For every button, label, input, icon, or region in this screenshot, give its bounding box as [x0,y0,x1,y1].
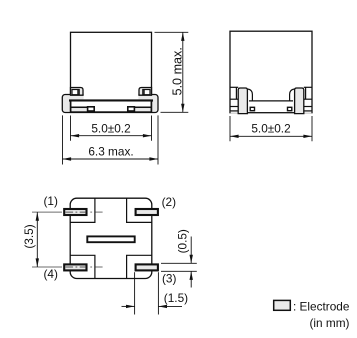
gray bottom band right [135,108,151,111]
svg-text:(1.5): (1.5) [164,291,188,305]
svg-text:5.0 max.: 5.0 max. [170,47,184,95]
extension line pad3 right [157,272,159,314]
extension line pad3 left [134,272,136,314]
svg-text:: Electrode: : Electrode [293,299,350,313]
right column line 1 [304,98,312,100]
right cap boundary line [150,101,152,112]
right tab window [143,90,150,95]
electrode base frame (front view) [62,95,158,113]
left column line 1 [230,98,238,100]
left tab fold line [77,89,79,95]
band top edge left [71,107,88,109]
center slot [87,236,134,242]
left electrode strip (side view) [238,88,247,114]
extension line side left [229,116,231,141]
pad 3 [136,264,158,270]
dimension line (3.5) [36,212,38,267]
right bottom notch (side) [288,107,292,110]
extension line side right [311,116,313,141]
centerline pad1 dot [90,211,92,213]
left bottom notch [88,107,95,111]
inner white middle extension [95,102,127,112]
centerline dash over pad4 [66,266,86,268]
svg-text:(3.5): (3.5) [22,224,36,248]
left tab window [72,90,79,95]
base bottom edge line [71,111,152,113]
right bottom notch [128,107,135,111]
left recess step [248,89,253,101]
extension line body right [151,116,153,141]
electrode legend swatch [274,300,291,310]
component body (front view) [71,32,152,100]
recess outline bottom-left [70,255,95,278]
centerline pad4 inner dash [95,266,102,268]
gray bottom band left [71,108,87,111]
right bottom corner gray cell [304,112,311,114]
dimension line 6.3 max. [63,158,159,160]
dimension line (0.5) upper [190,237,192,264]
component body (side view) [230,31,312,113]
dimension line 5.0±0.2 (front) [71,135,152,137]
body bottom patch between tabs [84,93,139,100]
left inner step vertical [235,87,237,99]
pad 4 [64,264,86,270]
svg-text:(0.5): (0.5) [175,229,189,253]
center recess line [249,100,293,102]
extension line pad3 top [161,262,197,264]
right shoulder line [304,86,312,88]
pad 1 [64,209,86,215]
base plate top edge (thick bar) [69,99,153,101]
extension line base bottom (height dim) [161,111,189,113]
svg-text:6.3 max.: 6.3 max. [88,145,133,159]
svg-text:(2): (2) [162,195,176,209]
band top edge right [135,107,152,109]
right recess step [290,89,295,101]
right clip tab [139,88,152,96]
svg-text:(in mm): (in mm) [310,316,350,330]
centerline pad1 outer [32,211,62,213]
extension line pad3 bottom [161,270,197,272]
package outline (bottom view) [70,198,152,278]
extension line base right [157,115,159,164]
left column line 2 [230,106,238,108]
left bottom notch (side) [250,107,254,110]
recess outline top-left [70,198,95,222]
svg-text:5.0±0.2: 5.0±0.2 [251,122,290,136]
left bottom corner gray cell [231,112,238,114]
centerline pad4 dot [90,266,92,268]
dimension line 5.0 max. (vertical) [182,32,184,112]
recess outline bottom-right [127,255,152,278]
recess outline top-right [127,198,152,222]
left clip tab [71,88,84,96]
right tab fold line [143,89,145,95]
centerline dash over pad1 [66,211,86,213]
dimension line (1.5) right [158,305,182,307]
centerline pad4 outer [32,266,62,268]
right inner step vertical [305,87,307,99]
dimension line (0.5) lower [190,271,192,287]
pad 2 [136,209,158,215]
left cap boundary line [70,101,72,112]
svg-text:(3): (3) [162,271,176,285]
dimension line (1.5) left [122,305,135,307]
svg-text:(4): (4) [44,267,58,281]
extension line body left [70,116,72,141]
right electrode strip (side view) [295,88,304,114]
centerline pad1 inner dash [95,211,102,213]
extension line body top (height dim) [155,31,189,33]
svg-text:(1): (1) [44,194,58,208]
left column line 3 [230,110,238,112]
inner white strip [71,102,151,108]
dimension line 5.0±0.2 (side) [230,135,312,137]
left shoulder line [230,86,238,88]
right column line 3 [304,110,312,112]
extension line base left [62,115,64,164]
svg-text:5.0±0.2: 5.0±0.2 [91,121,130,135]
right column line 2 [304,106,312,108]
